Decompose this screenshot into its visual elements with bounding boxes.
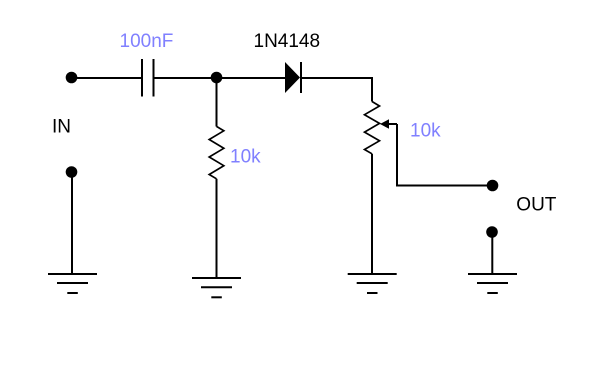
node IN terminal bbox=[66, 72, 78, 84]
diode D1 1N4148 bbox=[285, 62, 301, 93]
wire resistor R1 to ground bbox=[216, 179, 218, 278]
wire wiper to OUT terminal bbox=[397, 124, 492, 186]
svg-text:IN: IN bbox=[52, 117, 71, 138]
ground (potentiometer P1) bbox=[348, 274, 397, 293]
wire junction node A to resistor R1 bbox=[216, 78, 218, 127]
svg-text:10k: 10k bbox=[230, 147, 261, 168]
capacitor C1 100nF bbox=[142, 59, 154, 97]
node OUT terminal bbox=[487, 180, 499, 192]
potentiometer P1 wiper arrow bbox=[380, 119, 397, 129]
wire capacitor C1 to junction node A bbox=[154, 77, 286, 79]
wire P1 bottom to ground bbox=[371, 154, 373, 274]
node IN return terminal bbox=[66, 166, 78, 178]
svg-text:OUT: OUT bbox=[516, 195, 557, 216]
junction node A bbox=[211, 72, 223, 84]
resistor R1 10k body bbox=[209, 126, 224, 178]
svg-text:100nF: 100nF bbox=[120, 31, 174, 52]
node OUT return terminal bbox=[486, 226, 498, 238]
wire IN return terminal to ground bbox=[71, 172, 73, 274]
ground (IN return) bbox=[48, 274, 97, 293]
wire OUT return terminal to ground bbox=[491, 232, 493, 274]
potentiometer P1 10k body bbox=[365, 102, 380, 154]
svg-text:1N4148: 1N4148 bbox=[254, 31, 321, 52]
ground (resistor R1) bbox=[192, 278, 241, 297]
svg-text:10k: 10k bbox=[410, 121, 441, 142]
wire IN terminal to capacitor C1 bbox=[72, 77, 142, 79]
ground (OUT return) bbox=[468, 274, 517, 293]
wire D1 cathode to potentiometer P1 top bbox=[301, 78, 372, 102]
